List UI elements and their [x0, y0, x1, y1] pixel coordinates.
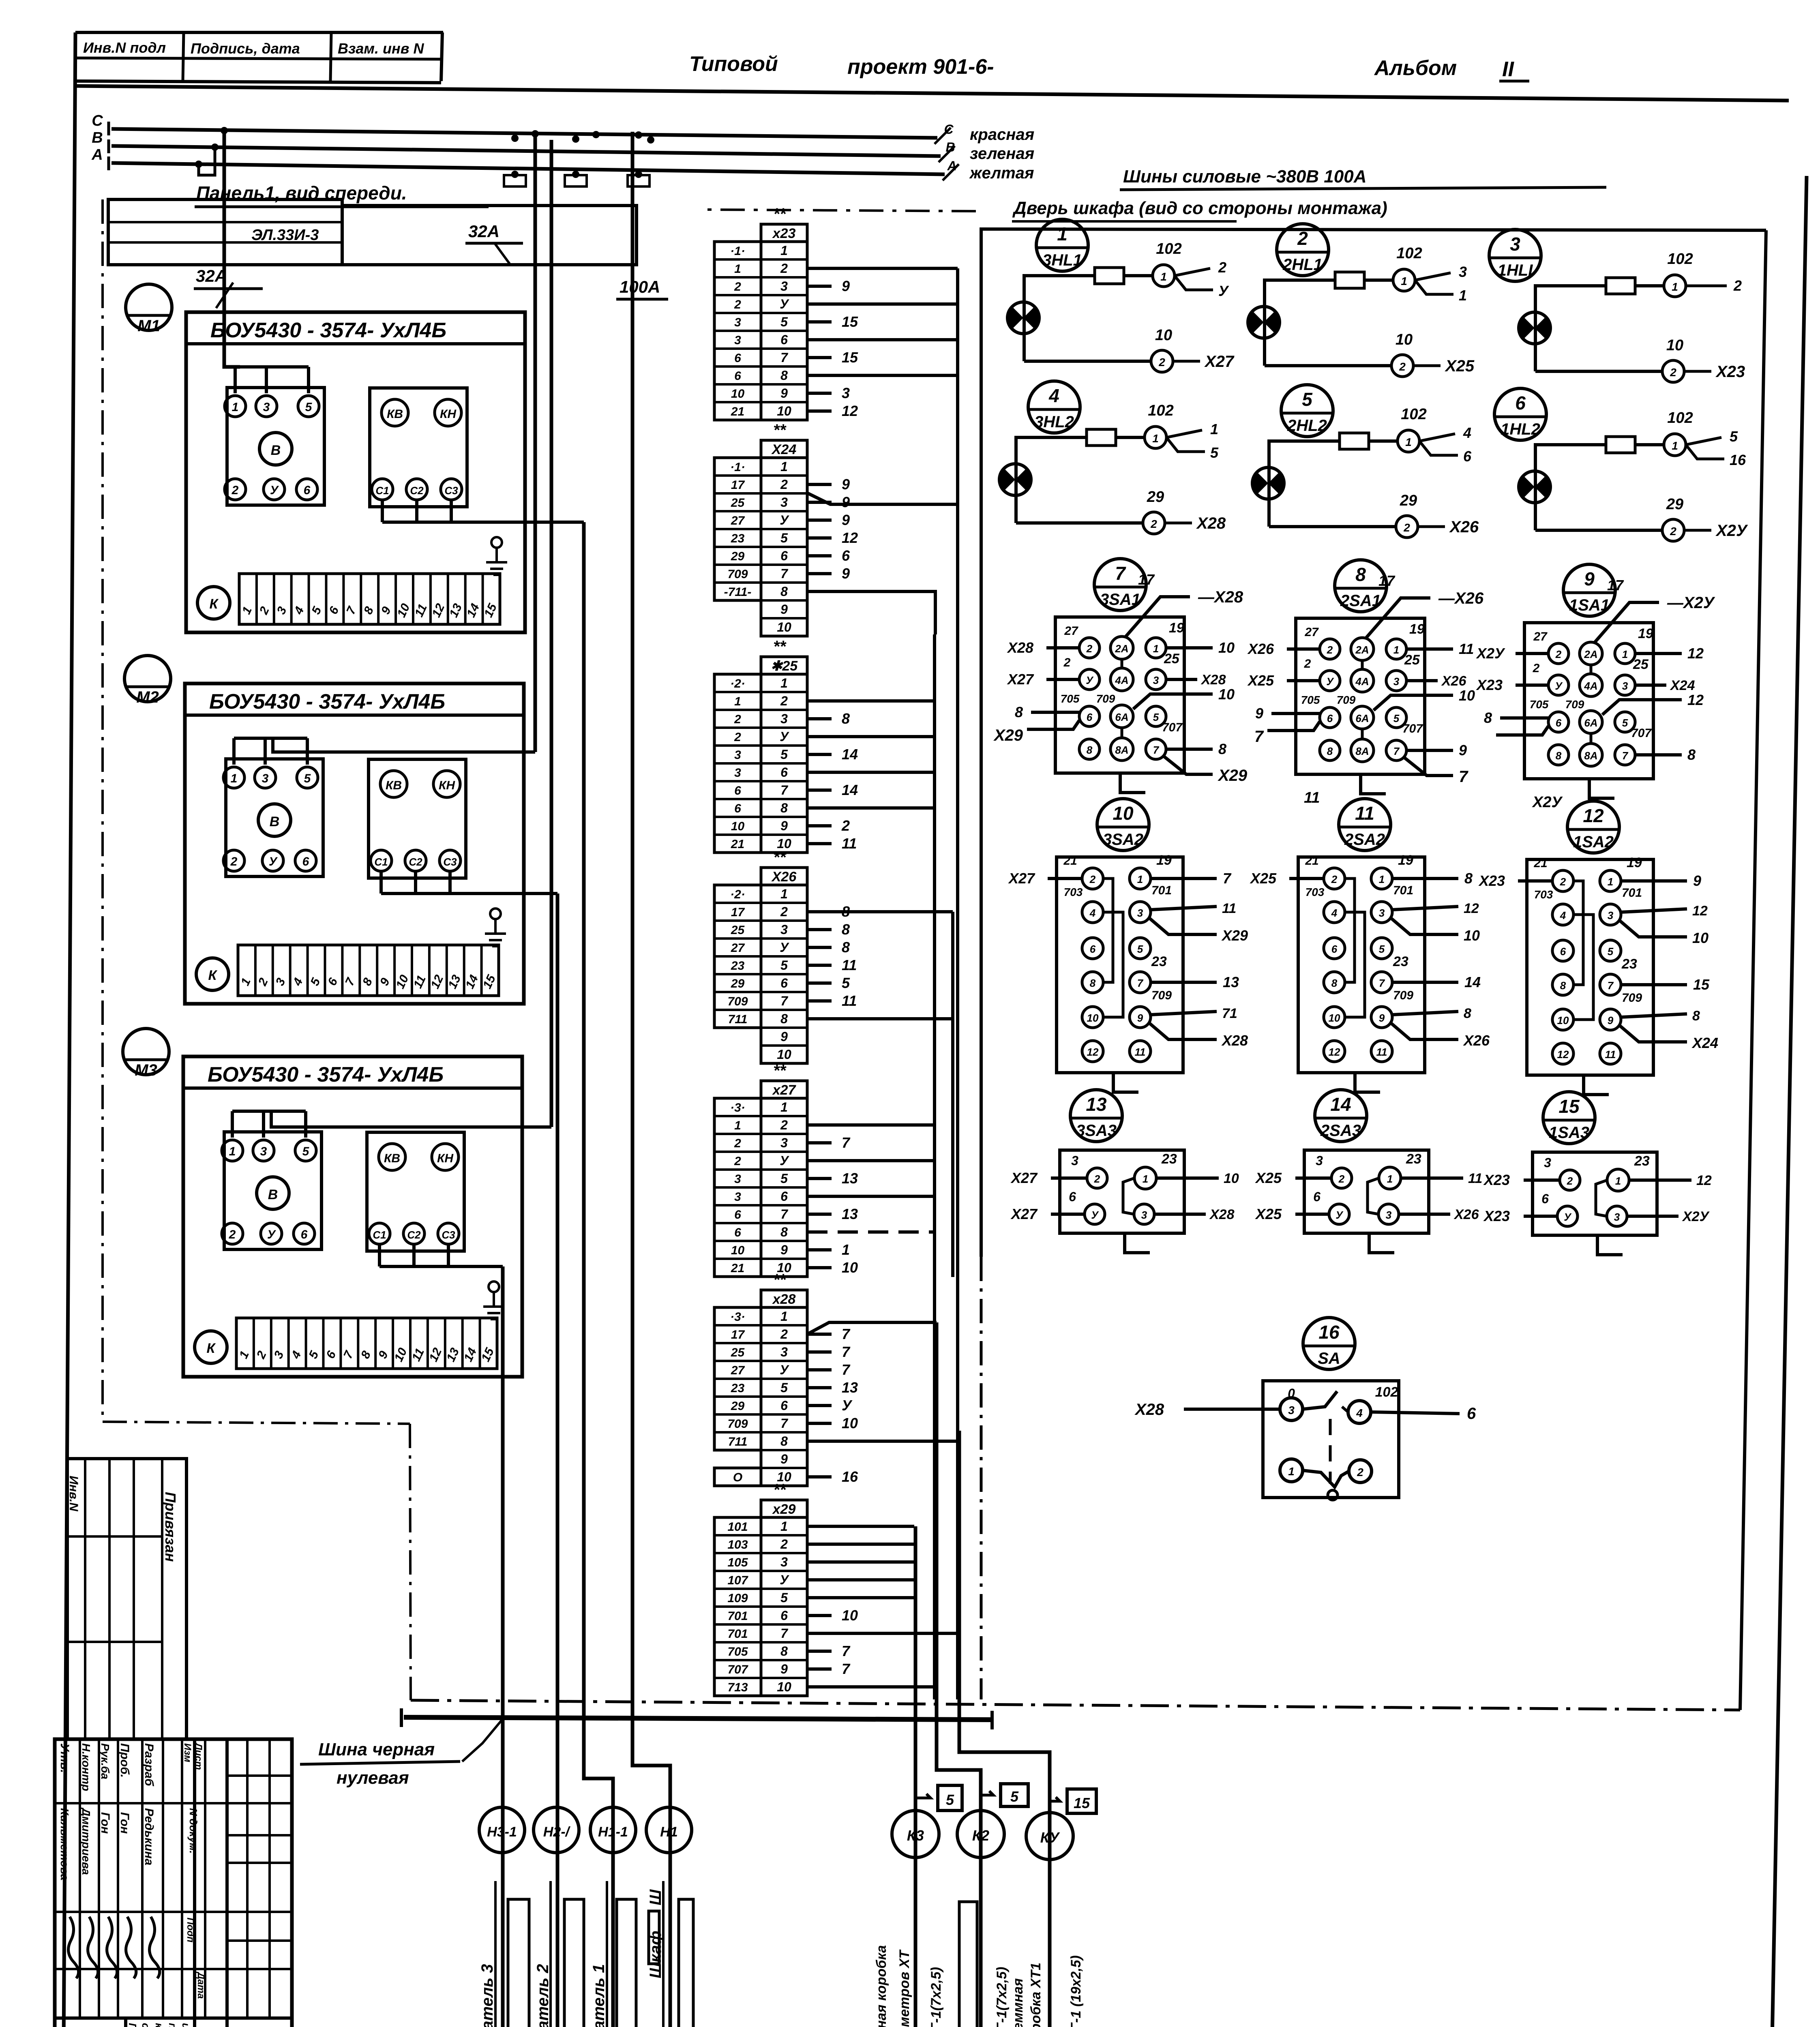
svg-text:5: 5: [1010, 1788, 1019, 1805]
svg-text:У: У: [780, 297, 789, 311]
svg-text:15: 15: [842, 349, 858, 366]
svg-text:5: 5: [780, 531, 788, 545]
wire: M1 feeder 32A: [224, 131, 240, 367]
svg-text:·1·: ·1·: [730, 461, 745, 474]
svg-text:10: 10: [1218, 686, 1235, 703]
svg-text:9: 9: [780, 1029, 788, 1044]
svg-text:Лист: Лист: [193, 1742, 204, 1770]
svg-text:2: 2: [1338, 1173, 1345, 1185]
svg-text:В: В: [268, 1187, 278, 1202]
svg-text:16: 16: [1318, 1322, 1340, 1343]
svg-text:11: 11: [1304, 789, 1320, 806]
svg-text:2: 2: [1533, 662, 1540, 675]
terminal group KV KN / C1 C2 C3: [369, 759, 466, 878]
vertical drops to cable circles: [914, 1526, 918, 2027]
wire: cabinet feeder 100A: [632, 132, 670, 2027]
svg-text:5: 5: [780, 747, 788, 762]
svg-text:1: 1: [1672, 439, 1678, 452]
svg-text:9: 9: [1379, 1012, 1385, 1024]
svg-text:проект 901-6-: проект 901-6-: [847, 55, 994, 79]
svg-text:1: 1: [1387, 1173, 1393, 1185]
svg-text:1: 1: [780, 1100, 788, 1114]
svg-text:3: 3: [842, 385, 850, 401]
ground hook 1SA3: [1597, 1235, 1623, 1255]
svg-text:2: 2: [1357, 1466, 1363, 1478]
svg-text:2: 2: [1063, 656, 1071, 669]
lamp symbol 1HLI: [1519, 312, 1550, 344]
svg-text:9: 9: [842, 512, 850, 528]
svg-text:5: 5: [1608, 945, 1614, 958]
svg-text:1: 1: [734, 262, 741, 276]
svg-text:3: 3: [780, 1345, 788, 1359]
ground symbol: [490, 909, 501, 919]
svg-text:12: 12: [1692, 903, 1708, 919]
svg-text:Дверь шкафа (вид со стороны мо: Дверь шкафа (вид со стороны монтажа): [1012, 198, 1387, 218]
svg-text:701: 701: [727, 1627, 748, 1641]
wire: M3 C-output to H3-1: [501, 1266, 505, 2027]
ground hook 2SA2: [1355, 1073, 1380, 1092]
svg-text:2А: 2А: [1355, 644, 1369, 656]
motor circle М3: [123, 1028, 169, 1075]
svg-text:**: **: [773, 849, 787, 866]
svg-text:102: 102: [1667, 251, 1693, 268]
terminal group KV KN / C1 C2 C3: [370, 388, 467, 507]
svg-text:10: 10: [731, 1244, 745, 1257]
svg-text:У: У: [1555, 680, 1563, 692]
svg-text:3: 3: [1153, 674, 1159, 686]
svg-text:2А: 2А: [1115, 643, 1128, 655]
unit box М1: [186, 312, 525, 632]
svg-text:Двигатель 1: Двигатель 1: [590, 1964, 608, 2027]
svg-text:100А: 100А: [620, 277, 660, 296]
svg-text:4А: 4А: [1584, 680, 1597, 692]
svg-text:14: 14: [1330, 1094, 1351, 1115]
svg-text:709: 709: [1096, 692, 1115, 705]
null bus black: [404, 1717, 992, 1720]
svg-text:X27: X27: [1008, 870, 1035, 887]
svg-text:23: 23: [1151, 954, 1167, 969]
svg-text:8: 8: [1087, 744, 1093, 756]
svg-text:8: 8: [1464, 1006, 1471, 1021]
left connection 1SA2: [1518, 879, 1552, 883]
svg-text:Шина черная: Шина черная: [318, 1740, 435, 1759]
svg-text:7: 7: [1254, 728, 1264, 746]
svg-text:8А: 8А: [1115, 744, 1128, 756]
svg-text:6: 6: [1331, 943, 1338, 955]
svg-text:C: C: [92, 112, 103, 129]
svg-text:М1: М1: [137, 317, 160, 335]
svg-text:6: 6: [780, 1398, 788, 1413]
svg-text:10: 10: [842, 1259, 858, 1276]
svg-text:15: 15: [842, 313, 858, 330]
door boundary dash-dot top: [707, 210, 981, 211]
svg-text:7: 7: [1223, 870, 1232, 887]
svg-text:Х26: Х26: [771, 869, 797, 885]
svg-text:У: У: [780, 1153, 789, 1168]
svg-text:2SA2: 2SA2: [1344, 831, 1385, 849]
svg-text:8: 8: [1560, 979, 1566, 992]
svg-text:2: 2: [734, 1155, 741, 1168]
svg-text:X25: X25: [1255, 1206, 1282, 1222]
relay terminal strip K 1-15: [195, 1331, 227, 1363]
svg-text:красная: красная: [970, 126, 1034, 144]
bus B: [111, 146, 941, 156]
switch contacts 1SA1: [1548, 643, 1569, 664]
svg-text:7: 7: [780, 566, 789, 581]
svg-text:7: 7: [780, 1416, 789, 1431]
svg-text:X28: X28: [1196, 514, 1226, 532]
svg-text:7: 7: [1459, 768, 1468, 786]
svg-text:6: 6: [1313, 1189, 1321, 1204]
svg-text:27: 27: [1064, 624, 1078, 638]
wiring 3HL1: [1024, 276, 1153, 361]
svg-text:Разраб: Разраб: [142, 1743, 156, 1787]
svg-text:6: 6: [734, 784, 741, 797]
svg-text:23: 23: [1634, 1153, 1650, 1169]
svg-text:3: 3: [263, 401, 270, 414]
svg-text:КН: КН: [439, 779, 455, 792]
svg-text:10: 10: [731, 820, 745, 833]
svg-text:21: 21: [731, 838, 744, 851]
svg-text:X23: X23: [1478, 872, 1505, 889]
svg-text:27: 27: [731, 1364, 745, 1377]
svg-text:29: 29: [1400, 492, 1417, 509]
svg-text:1HL2: 1HL2: [1501, 420, 1540, 438]
svg-text:Шкаф: Шкаф: [647, 1931, 665, 1978]
svg-text:X23: X23: [1476, 677, 1503, 693]
svg-text:14: 14: [842, 746, 858, 763]
svg-text:701: 701: [1622, 886, 1642, 900]
unit box М2: [185, 684, 524, 1004]
svg-text:8: 8: [780, 1644, 788, 1658]
svg-text:2: 2: [1086, 643, 1093, 655]
svg-text:КУ: КУ: [1040, 1829, 1060, 1846]
wiring 1HL2: [1535, 445, 1664, 530]
svg-text:2: 2: [780, 477, 788, 492]
svg-text:6: 6: [1541, 1191, 1549, 1206]
panel top bar ЭЛ.33И-3: [108, 199, 342, 265]
svg-text:9: 9: [842, 476, 850, 493]
svg-text:3: 3: [1459, 264, 1467, 280]
X28 long wires: [807, 1322, 937, 1334]
svg-text:10: 10: [777, 1680, 791, 1694]
svg-text:15: 15: [1693, 976, 1710, 993]
svg-text:X25: X25: [1445, 357, 1475, 375]
svg-text:1: 1: [231, 772, 238, 785]
cable circle К2: [957, 1811, 1004, 1858]
svg-text:У: У: [1086, 674, 1094, 686]
svg-text:X2У: X2У: [1532, 794, 1563, 811]
svg-text:5: 5: [1730, 428, 1738, 445]
svg-text:БОУ5430 - 3574- УхЛ4Б: БОУ5430 - 3574- УхЛ4Б: [209, 690, 445, 714]
svg-text:9: 9: [1459, 742, 1467, 759]
svg-text:4: 4: [1463, 424, 1471, 441]
svg-text:12: 12: [1687, 692, 1704, 708]
svg-text:10: 10: [1459, 687, 1475, 704]
terminal group 1-3-5 / B / 2-U-6: [226, 759, 323, 876]
svg-text:X29: X29: [993, 726, 1023, 744]
svg-text:1: 1: [780, 243, 788, 258]
svg-text:С1: С1: [375, 484, 389, 497]
svg-text:6: 6: [304, 484, 311, 497]
svg-text:КН: КН: [440, 407, 457, 421]
svg-text:7: 7: [842, 1661, 851, 1677]
motor circle М2: [124, 656, 171, 702]
svg-text:7: 7: [1379, 977, 1385, 989]
svg-text:6: 6: [1463, 448, 1472, 465]
svg-text:3: 3: [734, 748, 741, 762]
svg-text:1: 1: [1401, 275, 1407, 287]
svg-text:2: 2: [780, 1327, 788, 1341]
svg-text:707: 707: [727, 1663, 748, 1676]
X24 row8 wire: [807, 591, 935, 634]
svg-text:**: **: [773, 1271, 787, 1289]
svg-text:9: 9: [1608, 1014, 1614, 1026]
svg-text:X2У: X2У: [1715, 522, 1748, 540]
X25 long wires: [807, 699, 935, 703]
svg-text:3: 3: [1393, 675, 1400, 688]
svg-text:9: 9: [780, 1452, 788, 1466]
svg-text:3: 3: [734, 1190, 741, 1204]
svg-text:термометров ХТ: термометров ХТ: [897, 1949, 912, 2027]
svg-text:7: 7: [842, 1134, 851, 1151]
relay terminal strip K 1-15: [197, 587, 230, 619]
svg-text:703: 703: [1306, 886, 1325, 898]
ground hook 3SA1: [1120, 773, 1145, 793]
svg-text:16: 16: [842, 1468, 858, 1485]
svg-text:У: У: [842, 1397, 853, 1414]
selector switch 15 1SA3: [1543, 1092, 1595, 1144]
svg-text:11: 11: [1459, 641, 1474, 657]
svg-text:X25: X25: [1250, 870, 1277, 887]
svg-text:2: 2: [1560, 876, 1566, 888]
svg-text:6А: 6А: [1355, 712, 1369, 724]
svg-text:X24: X24: [1691, 1035, 1718, 1051]
svg-text:Х24: Х24: [771, 442, 797, 457]
svg-text:3: 3: [780, 1136, 788, 1150]
svg-text:2: 2: [1567, 1175, 1573, 1187]
svg-text:Проб.: Проб.: [118, 1743, 131, 1778]
svg-text:10: 10: [1329, 1012, 1340, 1024]
svg-text:1: 1: [1288, 1465, 1295, 1478]
svg-text:Привязан: Привязан: [162, 1492, 179, 1562]
svg-text:С1: С1: [374, 856, 388, 868]
svg-text:12: 12: [1557, 1048, 1569, 1061]
svg-text:У: У: [269, 855, 278, 868]
svg-text:1SA3: 1SA3: [1549, 1124, 1589, 1142]
svg-text:8: 8: [780, 801, 788, 815]
svg-text:Подп: Подп: [185, 1918, 196, 1943]
svg-text:3: 3: [1614, 1211, 1620, 1223]
svg-text:Дата: Дата: [195, 1971, 206, 1999]
diagonal wire 3SA1: [1125, 597, 1190, 637]
svg-text:8: 8: [780, 1434, 788, 1448]
cable circle К3: [892, 1811, 939, 1858]
junction dots on buses: [221, 127, 228, 134]
svg-text:X25: X25: [1255, 1170, 1282, 1186]
svg-text:1: 1: [734, 1119, 741, 1132]
svg-text:С2: С2: [409, 856, 422, 868]
svg-text:У: У: [780, 513, 789, 527]
svg-text:В: В: [270, 814, 280, 829]
svg-text:Н.контр: Н.контр: [80, 1743, 92, 1791]
svg-text:9: 9: [1584, 568, 1595, 589]
svg-text:2: 2: [780, 1537, 788, 1551]
svg-text:21: 21: [731, 1262, 744, 1275]
wiring 3HL2: [1016, 437, 1145, 523]
ground hook 2SA3: [1369, 1233, 1394, 1253]
svg-text:**: **: [773, 1481, 787, 1499]
svg-text:7: 7: [1115, 563, 1126, 584]
svg-text:·3·: ·3·: [730, 1101, 745, 1114]
svg-text:1: 1: [1160, 270, 1167, 283]
lamp symbol 2HL2: [1252, 467, 1284, 499]
svg-text:2HL1: 2HL1: [1282, 256, 1323, 274]
svg-text:1HLI: 1HLI: [1498, 261, 1533, 279]
panel boundary dash-dot: [101, 199, 104, 1422]
svg-text:17: 17: [1378, 572, 1396, 589]
svg-text:Клеммная коробка: Клеммная коробка: [874, 1945, 889, 2027]
svg-text:2: 2: [841, 817, 850, 834]
svg-text:705: 705: [1530, 698, 1549, 711]
selector switch 11 2SA2: [1339, 799, 1391, 851]
svg-text:14: 14: [842, 782, 858, 798]
svg-text:11: 11: [842, 835, 857, 852]
svg-text:6: 6: [780, 549, 788, 563]
cable circle Н1-1: [590, 1807, 636, 1853]
svg-text:8: 8: [1327, 745, 1333, 757]
svg-text:10: 10: [1396, 331, 1413, 348]
svg-text:3: 3: [1141, 1209, 1147, 1221]
svg-text:10: 10: [1692, 930, 1709, 946]
svg-text:У: У: [780, 1363, 789, 1377]
svg-text:29: 29: [731, 1399, 745, 1413]
svg-text:М3: М3: [135, 1061, 157, 1079]
svg-text:3: 3: [1544, 1155, 1551, 1170]
svg-text:Ш: Ш: [647, 1889, 665, 1905]
svg-text:4: 4: [1356, 1407, 1363, 1419]
svg-text:9: 9: [842, 565, 850, 582]
svg-text:КВ: КВ: [387, 407, 403, 421]
svg-text:SA: SA: [1318, 1350, 1340, 1367]
svg-text:8: 8: [780, 1225, 788, 1239]
svg-text:8: 8: [1015, 704, 1023, 720]
svg-text:707: 707: [1631, 726, 1652, 740]
svg-text:К2: К2: [972, 1827, 989, 1844]
svg-text:6: 6: [1327, 712, 1333, 724]
svg-text:Редькина: Редькина: [142, 1808, 156, 1865]
svg-text:12: 12: [1687, 645, 1704, 662]
svg-text:709: 709: [727, 995, 748, 1008]
svg-text:4: 4: [1560, 909, 1566, 921]
svg-text:1: 1: [1057, 223, 1068, 244]
svg-text:107: 107: [727, 1574, 748, 1587]
svg-text:21: 21: [1063, 854, 1077, 868]
lamp symbol 3HL1: [1008, 302, 1039, 334]
svg-text:5: 5: [780, 958, 788, 973]
svg-text:2: 2: [1670, 525, 1676, 538]
svg-text:X23: X23: [1483, 1208, 1510, 1224]
svg-text:709: 709: [1565, 698, 1584, 711]
svg-text:из железобетонных элементов: из железобетонных элементов: [180, 2023, 192, 2027]
svg-text:2: 2: [780, 694, 788, 708]
marker box 5 (K3): [938, 1785, 962, 1811]
svg-text:5: 5: [304, 772, 311, 785]
svg-text:7: 7: [842, 1643, 851, 1659]
svg-text:5: 5: [780, 315, 788, 329]
lamp indicator 3 1HLI: [1489, 229, 1541, 281]
svg-text:2: 2: [1304, 657, 1311, 671]
ground hook 3SA3: [1125, 1233, 1150, 1253]
svg-text:105: 105: [727, 1556, 748, 1569]
terminal group 1-3-5 / B / 2-U-6: [224, 1132, 322, 1249]
svg-text:С1: С1: [373, 1229, 386, 1241]
svg-text:27: 27: [731, 514, 745, 527]
wiring 2HL1: [1265, 280, 1393, 366]
svg-text:109: 109: [727, 1592, 748, 1605]
lamp indicator 6 1HL2: [1494, 388, 1546, 440]
svg-text:29: 29: [1666, 496, 1683, 513]
svg-text:1: 1: [780, 887, 788, 901]
svg-text:701: 701: [1151, 884, 1172, 897]
svg-text:1: 1: [780, 459, 788, 474]
wiring 1HLI: [1535, 286, 1664, 371]
svg-text:71: 71: [1222, 1006, 1237, 1021]
svg-text:У: У: [1091, 1209, 1099, 1221]
svg-text:102: 102: [1396, 245, 1422, 262]
svg-text:**: **: [773, 205, 787, 223]
switch levers: [1303, 1391, 1337, 1409]
svg-text:9: 9: [780, 1243, 788, 1257]
svg-text:9: 9: [780, 1662, 788, 1676]
svg-text:10: 10: [1557, 1014, 1569, 1026]
svg-text:102: 102: [1148, 402, 1173, 419]
svg-text:1: 1: [1210, 421, 1218, 437]
svg-text:3: 3: [262, 772, 269, 785]
svg-text:X23: X23: [1483, 1172, 1510, 1188]
svg-text:10: 10: [842, 1607, 858, 1624]
svg-text:3HL1: 3HL1: [1042, 251, 1082, 269]
svg-text:7: 7: [780, 350, 789, 365]
selector switch 12 1SA2: [1567, 801, 1619, 853]
svg-text:X28: X28: [1007, 639, 1033, 656]
left connections 1SA3: [1524, 1178, 1560, 1182]
marker box 5 (K2): [1001, 1784, 1028, 1806]
diagonal wire 2SA1: [1366, 598, 1430, 639]
svg-text:6: 6: [780, 332, 788, 347]
svg-text:2: 2: [780, 904, 788, 919]
svg-text:9: 9: [780, 386, 788, 401]
svg-text:К: К: [207, 1341, 216, 1356]
svg-text:X26: X26: [1453, 1207, 1479, 1222]
middle collector wires right of terminal blocks: [807, 267, 958, 270]
svg-text:Двигатель 3: Двигатель 3: [478, 1964, 496, 2027]
svg-text:3: 3: [734, 766, 741, 780]
stamp subject zone: [124, 2018, 127, 2027]
svg-text:М2: М2: [136, 688, 159, 706]
svg-text:6: 6: [1090, 943, 1096, 955]
svg-text:Н3-1: Н3-1: [487, 1824, 517, 1840]
svg-text:1: 1: [780, 1519, 788, 1534]
svg-text:6: 6: [1467, 1405, 1476, 1423]
svg-text:2: 2: [1331, 873, 1338, 885]
svg-text:7: 7: [842, 1326, 851, 1342]
svg-text:Гон: Гон: [118, 1812, 131, 1834]
title block stamp frame: [55, 1739, 292, 2027]
svg-text:12: 12: [1329, 1046, 1340, 1058]
svg-text:21: 21: [1533, 857, 1547, 870]
svg-text:5: 5: [302, 1145, 310, 1158]
